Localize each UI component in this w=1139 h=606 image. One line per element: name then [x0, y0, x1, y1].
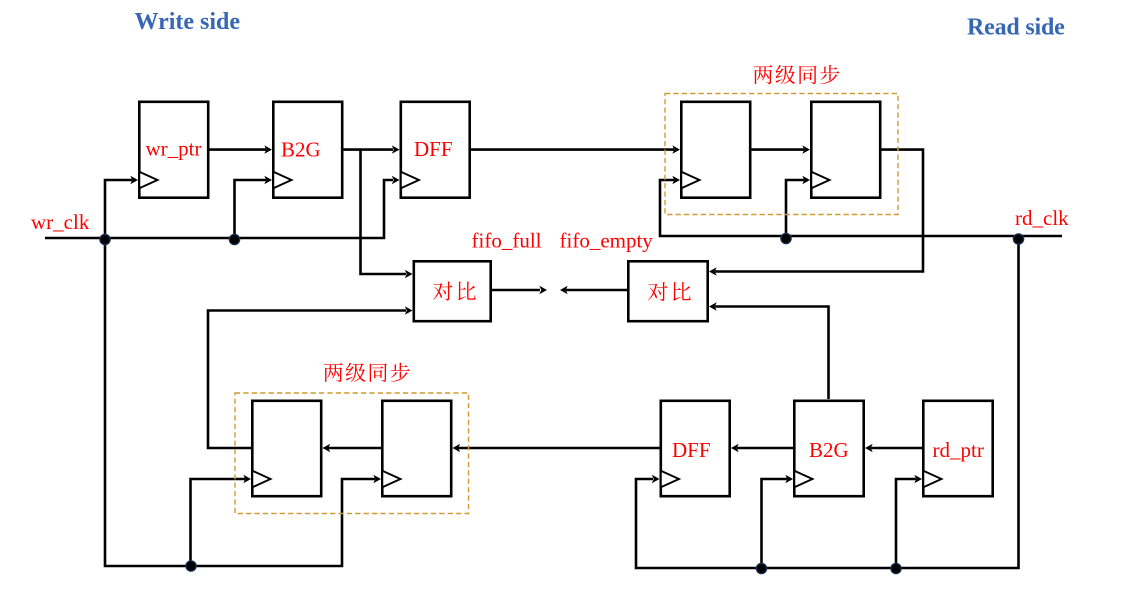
wire rd_clk to bottom row clocks: [636, 236, 1019, 568]
wire B2G top tap to compare-empty: [715, 307, 829, 400]
register write sync FF2: [382, 401, 451, 496]
node wr_clk / B2G clock junction: [229, 234, 239, 244]
wire wr_clk to bottom sync clocks: [105, 238, 375, 566]
node bottom B2G clock junction: [756, 563, 766, 573]
wire read sync FF2 clock branch: [786, 180, 804, 236]
wire bottom-left sync output up to compare-full: [208, 311, 406, 449]
svg-text:Write side: Write side: [135, 9, 241, 35]
wire fifo_empty output: [566, 289, 627, 292]
register wr_ptr: [139, 102, 208, 198]
svg-text:fifo_full: fifo_full: [472, 229, 542, 253]
wire read sync output to compare-empty: [715, 150, 923, 272]
wire bottom B2G clock branch: [762, 479, 788, 568]
wire bottom-left sync FF1 clock branch: [191, 479, 246, 566]
register read sync FF2: [811, 102, 880, 198]
wire wr_ptr clock branch: [105, 180, 132, 238]
svg-text:DFF: DFF: [672, 438, 711, 462]
wire B2G clock branch: [235, 180, 267, 238]
block compare fifo_empty: [628, 261, 707, 321]
label two-stage sync (read side): [753, 65, 772, 84]
svg-text:wr_ptr: wr_ptr: [146, 137, 202, 161]
node bottom-left clock junction: [186, 561, 196, 571]
node wr_clk / wr_ptr clock junction: [100, 234, 110, 244]
svg-text:Read side: Read side: [967, 15, 1065, 41]
node rd_ptr clock junction: [891, 563, 901, 573]
wire B2G output tap down to compare-full: [361, 150, 407, 274]
svg-text:B2G: B2G: [809, 438, 849, 462]
block compare fifo_full: [414, 261, 491, 321]
svg-text:DFF: DFF: [414, 137, 453, 161]
wire bottom DFF to bottom-left sync FF2: [458, 447, 660, 450]
wire fifo_full output: [492, 289, 540, 292]
register DFF (write): [401, 102, 470, 198]
svg-text:wr_clk: wr_clk: [31, 210, 90, 234]
label two-stage sync (write side): [324, 363, 343, 382]
node rd_clk / sync FF2 clock junction: [781, 233, 791, 243]
node rd_clk main junction: [1013, 234, 1023, 244]
register read sync FF1: [681, 102, 750, 198]
register DFF (read): [661, 401, 730, 496]
dashed group box: write-side two-stage sync: [235, 393, 469, 514]
wire read sync FF1 to FF2: [752, 148, 805, 151]
register rd_ptr: [923, 401, 992, 496]
wire bottom-left sync FF2 to FF1: [328, 447, 381, 450]
block B2G (write): [273, 102, 342, 198]
wire wr_ptr to B2G: [210, 148, 267, 151]
wire rd_ptr to B2G (bottom): [871, 447, 922, 450]
block B2G (read): [794, 401, 863, 496]
wire wr_clk main line: [45, 180, 393, 238]
wire DFF to read-side sync FF1: [471, 148, 674, 151]
wire B2G to DFF (bottom): [737, 447, 793, 450]
wire B2G to DFF: [344, 148, 394, 151]
register write sync FF1: [252, 401, 321, 496]
wire rd_ptr clock branch: [896, 479, 916, 568]
svg-text:B2G: B2G: [281, 137, 321, 161]
dashed group box: read-side two-stage sync: [665, 94, 898, 215]
wire rd_clk main line: [660, 180, 1062, 236]
svg-text:fifo_empty: fifo_empty: [560, 229, 654, 253]
svg-text:rd_clk: rd_clk: [1015, 206, 1069, 230]
svg-text:rd_ptr: rd_ptr: [933, 438, 984, 462]
